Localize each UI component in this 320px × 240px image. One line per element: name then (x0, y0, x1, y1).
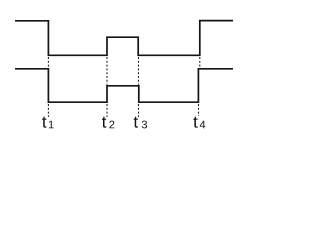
label t1 (42, 117, 53, 129)
waveform signal A (top trace) (15, 21, 233, 56)
dotted marker line t1 (47, 57, 49, 117)
label t2 (102, 117, 114, 129)
waveform signal B (bottom trace) (15, 69, 233, 102)
dotted marker line t4 (199, 57, 200, 116)
label t3 (134, 117, 147, 129)
label t4 (193, 117, 205, 129)
dotted marker line t2 (106, 57, 108, 117)
dotted marker line t3 (138, 57, 140, 117)
